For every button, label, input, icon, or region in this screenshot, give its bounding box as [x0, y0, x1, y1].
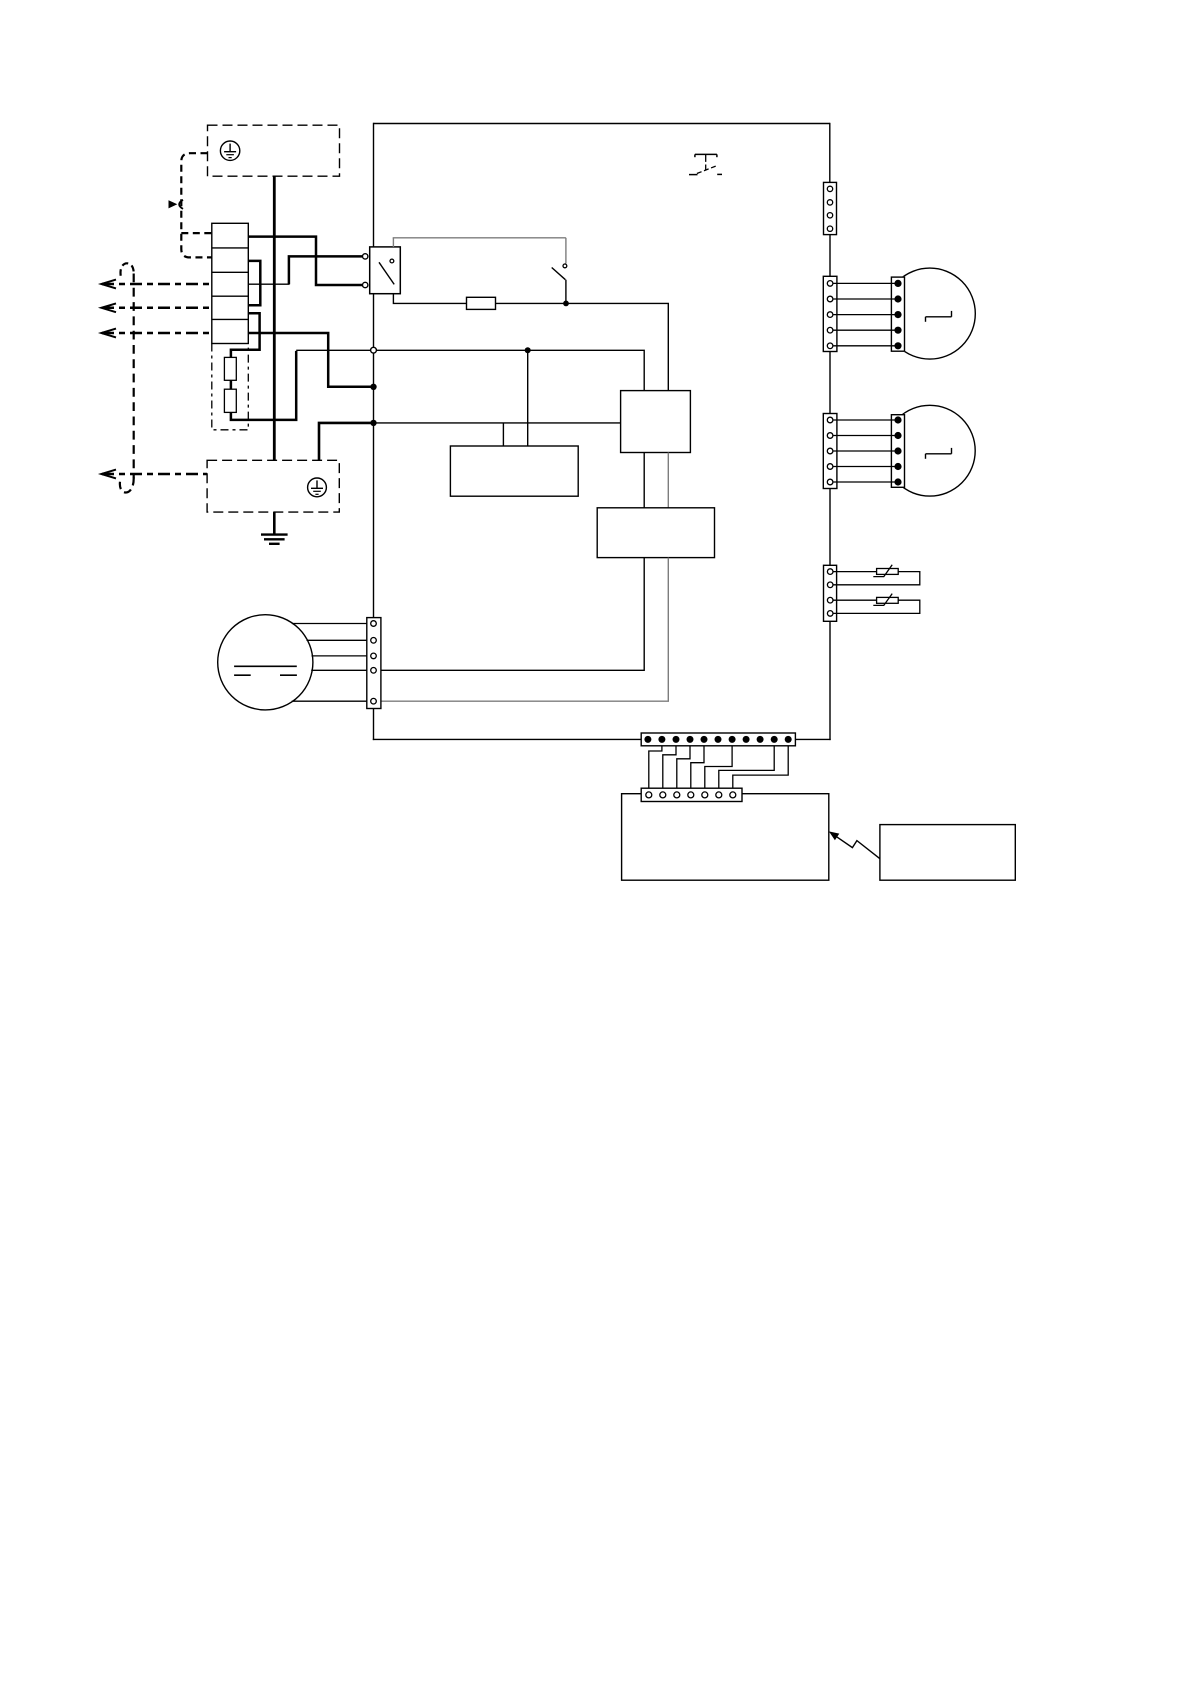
junction dot to control block	[525, 347, 531, 353]
connector CN4 (motor side)	[891, 415, 904, 488]
thermistor TH2	[877, 597, 899, 603]
wire fuse F3 to rectifier box S	[496, 303, 669, 390]
earth wire (main vertical)	[273, 176, 276, 460]
connector CN7 (7-pin)	[641, 788, 742, 801]
protective earth symbol (top box)	[220, 141, 239, 160]
junction dot on PCB left edge lower	[370, 420, 376, 426]
splice symbol	[169, 200, 178, 208]
fan motor FM	[218, 615, 313, 710]
louver motor LM2	[884, 405, 975, 496]
LM2 stepping symbol	[926, 448, 952, 459]
transformer T	[597, 508, 714, 558]
dashed bracket to terminal cells 1-2	[181, 153, 212, 257]
cable bundle dashed line	[133, 274, 135, 479]
relay RY box	[370, 247, 401, 294]
junction dot	[563, 301, 569, 307]
switch SW fixed contact	[563, 264, 567, 268]
wire T to fan connector pin5 (grey)	[381, 558, 668, 702]
ground symbol	[261, 512, 288, 544]
wireless signal zigzag arrow	[837, 837, 880, 859]
arrowheads	[101, 280, 116, 479]
wire T to fan connector pin4	[381, 558, 644, 671]
wire from earth-line node to bottom box	[319, 423, 374, 460]
earth ground dashed box (bottom left)	[207, 460, 339, 512]
LM2 lead wires	[833, 420, 898, 482]
main control PCB outline	[373, 123, 831, 740]
control block R2 pins	[502, 423, 504, 446]
fan motor connector CN1	[367, 618, 381, 709]
connector CN4 (board side)	[823, 414, 837, 489]
fuse F1	[224, 357, 236, 380]
thermistor wires loop 2	[833, 600, 919, 613]
incoming mains dash-dot lines with arrows	[102, 284, 212, 474]
junction dot on PCB left edge	[370, 384, 376, 390]
thermistor TH1	[877, 569, 899, 575]
LM1 lead wires	[833, 283, 898, 345]
grey wire loop from relay to switch SW	[393, 238, 566, 264]
switch SW blade	[552, 268, 566, 280]
fan motor winding symbol	[234, 666, 297, 675]
connector CN3 (board side)	[823, 276, 837, 351]
bundle hook top	[121, 263, 134, 276]
control block R2	[450, 446, 578, 496]
wire node to rectifier box S	[374, 422, 621, 424]
wire fuse chain to transformer primary	[296, 350, 644, 390]
fan motor lead wires	[292, 624, 367, 702]
connector CN5 (thermistors)	[824, 565, 837, 621]
thermal protector symbol	[689, 154, 722, 174]
relay pin bottom	[363, 282, 368, 287]
connector CN3 (motor side)	[891, 277, 904, 351]
terminal block TB1	[212, 223, 249, 343]
remote controller box	[880, 825, 1015, 881]
fuse F3	[467, 297, 496, 309]
connector CN6 (11-pin strip)	[641, 733, 795, 746]
wire switch to junction	[565, 280, 567, 304]
wire terminal cell1 to relay bottom pin	[248, 237, 362, 285]
fuse holder dashed section	[212, 344, 249, 430]
protective earth symbol (bottom box)	[308, 478, 327, 497]
rectifier box S	[621, 391, 691, 453]
display unit box	[622, 794, 829, 881]
jumper link cell2-cell4	[248, 261, 260, 305]
louver motor LM1	[884, 268, 975, 359]
fuse F2	[224, 389, 236, 412]
wires CN6 to CN7	[649, 746, 788, 788]
relay fixed contact	[390, 259, 394, 263]
power supply terminal dashed box (top left)	[208, 125, 340, 176]
wire terminal cell3 to relay top pin	[248, 283, 289, 285]
relay pin top	[363, 254, 368, 259]
wire relay bottom to fuse F3	[393, 294, 466, 304]
wire terminal cell5 to earth-line node	[248, 333, 373, 387]
jumper link / fuse chain	[231, 313, 296, 420]
junction node (open) on PCB left edge	[371, 347, 377, 353]
wires S to transformer T	[643, 453, 645, 508]
relay contact blade	[379, 262, 394, 284]
thermistor wires loop 1	[833, 572, 919, 585]
LM1 stepping symbol	[926, 311, 952, 322]
connector CN2 (4-pin, top right)	[824, 182, 837, 234]
bundle hook bottom	[120, 478, 134, 493]
